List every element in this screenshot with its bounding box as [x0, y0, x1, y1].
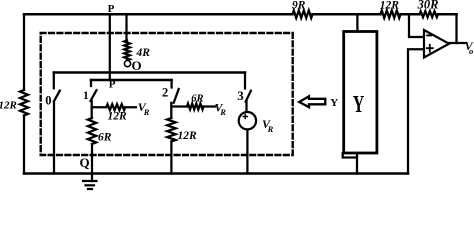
svg-text:12R: 12R [108, 110, 128, 122]
svg-text:o: o [469, 46, 473, 56]
wire switch 2 leg [170, 103, 172, 118]
wire inverting input stub [409, 14, 424, 37]
resistor 30R (feedback) [420, 11, 439, 17]
svg-text:P: P [108, 3, 115, 15]
switch 1 [90, 80, 92, 86]
node O terminal circle [124, 61, 130, 67]
resistor 4R [125, 14, 127, 40]
wire P vertical [109, 14, 111, 80]
source VR [239, 112, 256, 129]
svg-text:Y: Y [330, 97, 338, 109]
wire Y-block top stub [356, 14, 358, 31]
svg-text:Q: Q [80, 155, 90, 170]
svg-text:3: 3 [237, 88, 244, 103]
wire bus (switch 0/3 tops) [54, 71, 245, 74]
resistor 9R [293, 10, 313, 18]
svg-text:30R: 30R [417, 0, 439, 12]
block Y [344, 32, 377, 154]
svg-text:Y: Y [353, 92, 365, 118]
svg-text:6R: 6R [98, 132, 112, 144]
svg-text:12R: 12R [0, 100, 17, 112]
svg-text:12R: 12R [178, 130, 198, 142]
wire output [449, 42, 466, 44]
ground [91, 174, 93, 182]
wire switch 0 leg [53, 102, 55, 174]
resistor 6R (horizontal, switch 2) [171, 105, 215, 107]
svg-text:R: R [219, 107, 226, 117]
resistor 6R (vertical, switch 1) [88, 118, 96, 144]
svg-text:9R: 9R [292, 0, 306, 12]
svg-text:6R: 6R [191, 94, 203, 105]
wire source leg [246, 130, 248, 174]
switch 0 [53, 73, 55, 89]
wire bracket (switch 1/2 tops) [91, 79, 172, 82]
dashed box (network boundary) [41, 33, 293, 155]
wire switch 3 leg [245, 101, 247, 112]
svg-text:O: O [132, 58, 142, 73]
switch 2 [170, 80, 172, 88]
wire feedback vertical [455, 14, 457, 43]
svg-text:R: R [143, 107, 150, 117]
svg-text:R: R [267, 124, 274, 134]
resistor 12R (vertical, switch 2) [167, 118, 176, 142]
svg-text:1: 1 [83, 90, 89, 102]
wire Y-block bottom stub [356, 153, 358, 174]
wire top rail [24, 13, 457, 16]
switch 3 [244, 73, 246, 89]
svg-text:12R: 12R [380, 0, 400, 12]
wire non-inverting input [408, 49, 424, 173]
resistor 12R (horizontal, switch 1) [92, 106, 136, 108]
svg-text:2: 2 [162, 86, 168, 100]
resistor 12R (far left branch) [23, 14, 25, 173]
svg-text:0: 0 [45, 94, 51, 108]
wire bottom rail [24, 172, 408, 175]
op-amp U1 [424, 30, 449, 58]
wire switch 1 leg [91, 101, 93, 118]
arrow Y (admittance looking-in) [299, 96, 325, 107]
resistor 12R (input to op-amp) [381, 10, 401, 18]
